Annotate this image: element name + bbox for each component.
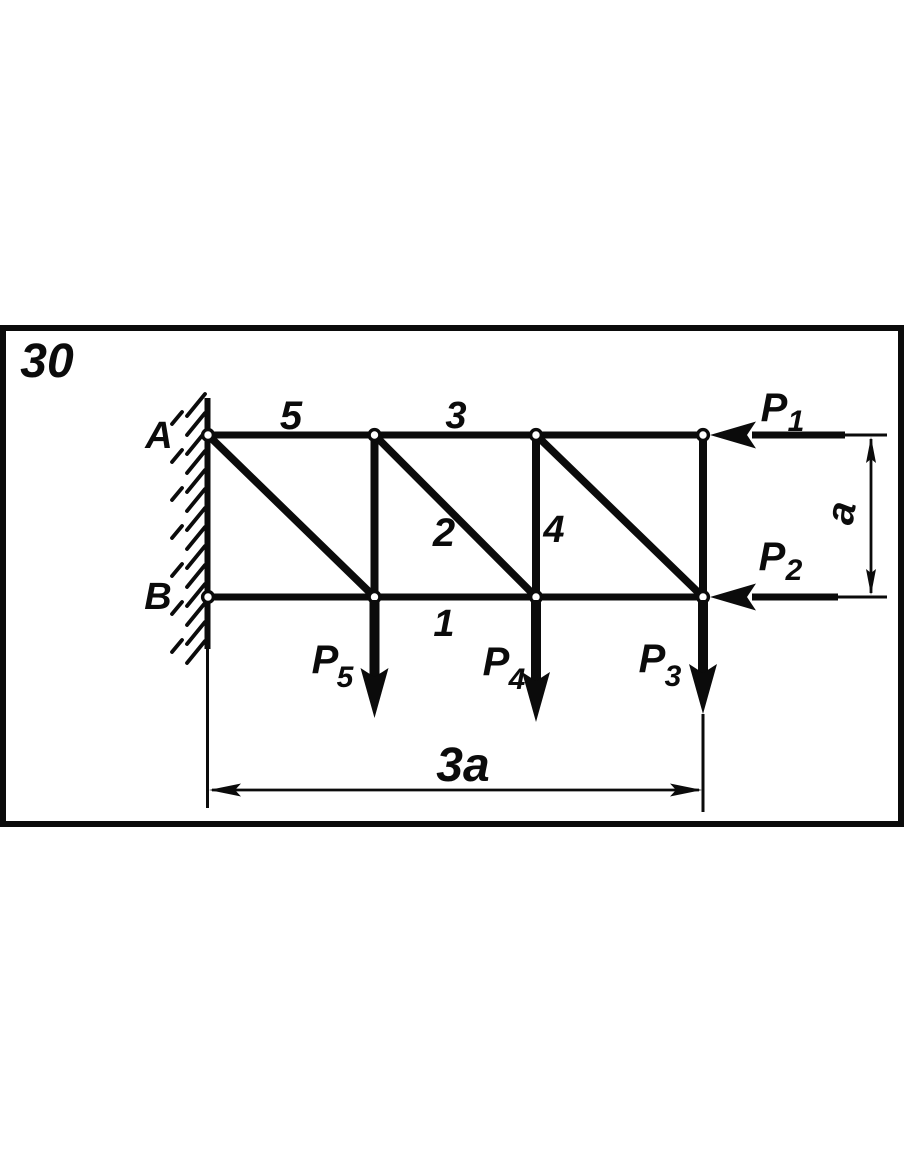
svg-text:2: 2 xyxy=(785,554,803,587)
svg-text:3a: 3a xyxy=(436,739,489,792)
svg-text:P: P xyxy=(312,638,339,682)
node bottom 2 xyxy=(531,592,542,603)
force P4 arrow xyxy=(522,600,550,722)
first vertical xyxy=(371,435,379,597)
label P2 xyxy=(759,535,803,587)
member 4: middle vertical xyxy=(532,435,540,597)
force P3 arrow xyxy=(689,600,717,714)
svg-text:3: 3 xyxy=(665,660,682,693)
svg-text:5: 5 xyxy=(280,394,303,438)
extension line below wall for 3a dimension xyxy=(206,649,209,808)
node bottom 1 xyxy=(369,592,380,603)
svg-text:P: P xyxy=(483,640,510,684)
node top 1 xyxy=(369,430,380,441)
svg-text:A: A xyxy=(144,415,172,457)
diagonal third panel xyxy=(536,435,703,597)
frame border xyxy=(3,328,901,824)
node bottom 3 xyxy=(698,592,709,603)
svg-text:P: P xyxy=(761,386,788,430)
svg-text:1: 1 xyxy=(788,405,805,438)
dimension a vertical line xyxy=(866,437,876,595)
label P1 xyxy=(761,386,805,438)
node B xyxy=(203,592,214,603)
top chord third panel xyxy=(536,432,706,439)
svg-text:30: 30 xyxy=(20,335,74,388)
force P5 arrow xyxy=(361,600,389,718)
extension line below P3 for 3a dimension xyxy=(702,714,705,812)
wall hatching xyxy=(172,394,205,663)
force P1 arrow xyxy=(710,422,887,449)
right vertical xyxy=(699,435,707,597)
node top 2 xyxy=(531,430,542,441)
svg-text:2: 2 xyxy=(432,511,455,555)
label P3 xyxy=(639,637,682,693)
node A xyxy=(203,430,214,441)
svg-text:P: P xyxy=(759,535,786,579)
wall line xyxy=(205,398,211,649)
label P5 xyxy=(312,638,355,694)
label P4 xyxy=(483,640,526,696)
dimension 3a line xyxy=(209,784,702,797)
svg-text:4: 4 xyxy=(508,663,526,696)
svg-text:5: 5 xyxy=(337,661,355,694)
node top 3 xyxy=(698,430,709,441)
svg-text:1: 1 xyxy=(433,603,454,645)
svg-text:4: 4 xyxy=(542,509,564,551)
svg-text:3: 3 xyxy=(445,395,466,437)
member 3: top chord second panel xyxy=(374,432,538,439)
svg-text:P: P xyxy=(639,637,666,681)
diagonal A to first bottom node xyxy=(208,435,375,597)
force P2 arrow xyxy=(710,584,887,611)
svg-text:B: B xyxy=(144,576,171,618)
member 1: bottom chord xyxy=(205,594,706,601)
member 2: diagonal second panel xyxy=(375,435,537,597)
member 5: top chord panel A to first vertical xyxy=(205,432,376,439)
